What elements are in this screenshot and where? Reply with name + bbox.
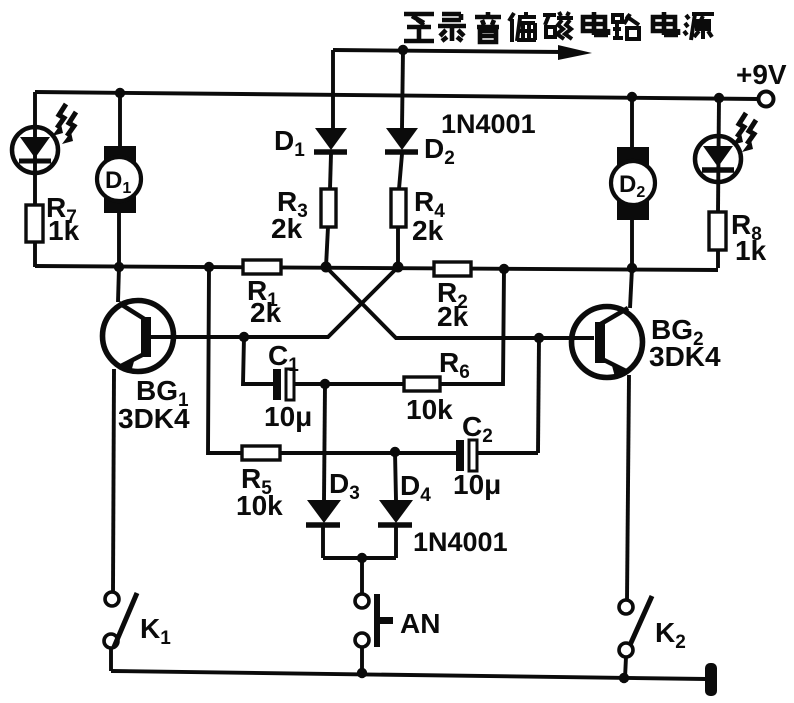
node: +9V rail / motor D2 branch <box>627 92 637 102</box>
wire: D3-D4 cathode tie <box>323 556 396 560</box>
transistor BG2 <box>572 268 643 600</box>
node: +9V rail / motor D1 branch <box>115 88 125 98</box>
wire: R4 to collector rail <box>396 227 400 267</box>
terminal: +9V input <box>759 92 774 107</box>
svg-text:2k: 2k <box>250 297 282 328</box>
node: BG1 base line / C1 branch <box>239 332 249 342</box>
wire: rail node down to R5 <box>208 267 242 453</box>
node: rail / R6 branch <box>499 264 509 274</box>
svg-text:1N4001: 1N4001 <box>413 527 508 557</box>
node: D4 branch on R5-C2 line <box>390 447 400 457</box>
wire: +9V supply rail <box>35 92 758 99</box>
resistor R2 (in rail) <box>434 262 471 276</box>
switch K2 <box>619 596 652 678</box>
wire: node to R6 <box>325 382 404 386</box>
svg-text:1N4001: 1N4001 <box>441 109 536 139</box>
node: C1 / R6 / D3 junction <box>320 379 330 389</box>
diode D1 <box>314 128 347 189</box>
wire: BG1 base node down to C1 <box>243 337 273 384</box>
diode D3 <box>306 384 341 558</box>
node: rail / R4 and cross-coupling to BG1 base <box>393 262 404 273</box>
node: rail / motor D1 and BG1 collector <box>114 262 124 272</box>
node: rail / R3 and cross-coupling to BG2 base <box>321 262 332 273</box>
node: BG2 base line / C2 branch <box>534 333 544 343</box>
resistor R7 <box>26 205 43 242</box>
svg-text:1k: 1k <box>48 215 80 246</box>
svg-text:AN: AN <box>400 608 440 639</box>
motor D2 (right motor) <box>611 97 655 268</box>
diode D2 <box>385 128 418 189</box>
node: rail / R5 branch <box>204 262 214 272</box>
resistor R8 <box>709 212 726 250</box>
wire: R6 up to rail node <box>440 269 504 384</box>
resistor R1 (in rail) <box>243 260 281 274</box>
wire: cross-coupling R3 node to BG2 base <box>326 267 594 338</box>
node: +9V rail / LED2-R8 branch <box>714 93 724 103</box>
wire: C2 to BG2 base branch <box>477 451 538 455</box>
ground (chassis bar) <box>705 663 717 696</box>
pushbutton AN <box>355 594 393 673</box>
wire: ground return rail <box>111 671 706 679</box>
node: ground rail / K2 <box>619 673 629 683</box>
wire: D1 anode riser <box>331 50 335 128</box>
resistor R5 <box>242 446 280 460</box>
capacitor C1 (electrolytic 10u) <box>273 369 294 400</box>
svg-text:2k: 2k <box>412 215 444 246</box>
svg-text:+9V: +9V <box>736 59 787 90</box>
node: rail / motor D2 and BG2 collector <box>627 263 637 273</box>
svg-text:10μ: 10μ <box>453 469 501 500</box>
wire: C1 to R6 node <box>294 382 325 386</box>
wire: R3 to collector rail <box>326 227 328 267</box>
wire: BG2 base node down to C2 <box>538 338 539 453</box>
svg-text:1k: 1k <box>735 235 767 266</box>
svg-text:3DK4: 3DK4 <box>118 403 190 434</box>
resistor R4 <box>391 189 406 227</box>
LED LED2 (right indicator with light arrows) <box>695 98 756 212</box>
svg-text:10k: 10k <box>236 490 283 521</box>
transistor BG1 <box>103 267 174 592</box>
svg-text:2k: 2k <box>437 301 469 332</box>
switch K1 <box>104 592 137 671</box>
node: junction on arrow feed at D2 anode branch <box>398 45 408 55</box>
capacitor C2 (electrolytic 10u) <box>456 440 477 471</box>
wire: D2 anode riser <box>402 50 403 128</box>
wire: node down to AN button <box>360 558 364 594</box>
wire: arrow feed to recording bias circuit <box>333 45 592 60</box>
net label: title 至录音偏磁电路电源 (to recording-bias-circuit supply), drawn glyph strokes <box>404 12 714 42</box>
svg-text:2k: 2k <box>271 213 303 244</box>
wire: R7 to left node of lower rail <box>33 242 37 267</box>
resistor R6 <box>404 377 440 391</box>
wire: R5 to C2 <box>280 451 456 455</box>
node: ground rail / AN <box>357 668 367 678</box>
svg-text:10μ: 10μ <box>264 401 312 432</box>
motor D1 (left motor) <box>97 93 141 267</box>
svg-text:10k: 10k <box>406 394 453 425</box>
wire: lower collector rail <box>35 266 718 270</box>
wire: cross-coupling R4 node to BG1 base <box>151 267 398 337</box>
svg-text:3DK4: 3DK4 <box>649 341 721 372</box>
wire: R8 to rail end <box>716 250 720 268</box>
node: cathode tie / AN branch <box>357 553 367 563</box>
diode D4 <box>378 452 413 558</box>
resistor R3 <box>321 189 336 227</box>
LED LED1 (left indicator with light arrows) <box>12 92 76 205</box>
